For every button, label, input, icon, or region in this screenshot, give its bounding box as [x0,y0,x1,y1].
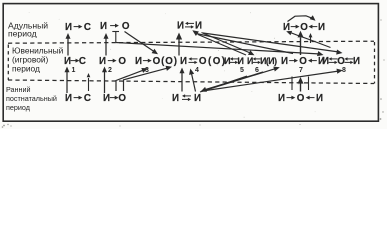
formula M2 И→О [99,56,126,67]
svg-text:1: 1 [72,67,76,74]
svg-text:постнатальный: постнатальный [6,94,57,103]
formula A4 И→О←И top [283,22,325,33]
line into B3 from M6 [201,72,264,92]
svg-text:2: 2 [108,67,112,74]
svg-text:Ранний: Ранний [6,85,31,94]
arrow B2 up to M2 [102,67,107,94]
dashed band bottom line [8,80,374,84]
svg-text:О: О [199,56,207,67]
svg-text:И: И [316,93,323,104]
svg-text:И: И [65,22,72,33]
arrow short below A4 ←И [309,33,313,43]
long line below A2 to M8 И [116,43,324,57]
svg-text:И: И [103,93,110,104]
svg-text:период: период [6,103,31,112]
svg-text:период: период [12,64,40,74]
svg-text:И: И [353,56,360,67]
svg-text:период: период [8,28,37,38]
svg-text:И: И [224,56,231,66]
dashed band top line [8,41,374,43]
svg-text:И: И [278,93,285,104]
svg-text:О: О [299,56,307,67]
line A3 down to M6 [202,33,255,56]
arrow M7 up to A4 O [298,31,304,55]
svg-text:6: 6 [255,67,259,74]
svg-text:О: О [297,93,305,104]
svg-text:И: И [177,21,184,32]
bent arrow B2 О to M3 end [124,66,173,91]
svg-text:О: О [165,56,173,67]
arrow B4 up to M7 [298,77,304,92]
svg-text:С: С [84,93,91,104]
svg-text:5: 5 [240,67,244,74]
outer frame [3,4,378,122]
line A3 down to M8 О [203,33,343,55]
svg-text:И: И [180,56,187,67]
arrow B3 up to M4 И [180,68,185,92]
arrow B1 С up tick [87,73,91,91]
svg-text:О: О [122,21,130,32]
formula A3 И⇆И top [177,21,202,32]
svg-text:И: И [195,21,202,32]
arc over A4 from И to И [288,15,316,21]
svg-text:С: С [79,56,86,67]
svg-text:7: 7 [299,67,303,74]
svg-text:О: О [118,56,126,67]
formula M8 И⇆О⇆И [322,56,360,67]
line from M7 up to A3 [196,34,293,54]
formula M4 И⇆О(О) [180,56,225,67]
svg-text:И: И [99,56,106,67]
svg-text:): ) [174,56,177,67]
arrow B3 to M7 [201,67,280,92]
arrow B3 up to M4 ⇆ [189,69,195,92]
svg-text:И: И [281,56,288,67]
svg-text:4: 4 [195,67,199,74]
tick stem below A2 [115,32,117,43]
formula B3 И⇆И bottom [172,93,201,104]
svg-text:И: И [135,56,142,67]
arc into A4 И from lower right [286,31,330,48]
svg-text:И: И [64,56,71,67]
arrow B3 to M8 long [203,69,343,91]
svg-text:И: И [237,56,244,66]
formula M3 И→О(О) [135,56,177,67]
arrow B1 up to M1 [65,67,70,94]
formula M1 И→С [64,56,86,67]
tick above B4 left [291,77,293,91]
svg-text:И: И [318,22,325,33]
svg-text:О: О [213,56,221,67]
svg-text:О: О [337,56,345,67]
arrow M2 up to A2 [104,33,109,56]
formula A1 И→С top [65,22,91,33]
formula B1 И→С bottom [65,93,91,104]
svg-text:): ) [274,56,277,66]
arrow M4 up to A3 [176,33,182,56]
line B3 to M5 area [200,76,247,92]
formula A2 И→О top [100,21,130,32]
scan noise speckles [2,12,385,127]
svg-text:И: И [172,93,179,104]
bent arrow B2 to M3 [116,68,148,91]
svg-text:О: О [153,56,161,67]
svg-text:О: О [118,93,126,104]
formula M7 И→О←И [281,56,325,67]
svg-text:И: И [100,21,107,32]
formula M5 И⇆И [224,56,244,66]
dashed band right edge [374,42,376,84]
arrowhead into A3 [192,30,199,36]
tick above B4 right [308,77,310,91]
arrow A2 О down to M3 [125,32,159,55]
svg-text:И: И [194,93,201,104]
line from M5 up to A3 [198,35,246,56]
formula M6 И⇆И(И) [247,56,277,66]
svg-text:С: С [84,22,91,33]
formula B4 И→О←И bottom [278,93,323,104]
arrow M1 up to A1 [66,33,71,56]
dashed band left edge [7,45,9,81]
svg-text:И: И [247,56,253,66]
svg-text:И: И [322,56,329,67]
formula B2 И→О bottom [103,93,126,104]
svg-text:О: О [300,22,308,33]
tick below A2 arrow [112,31,119,33]
svg-text:И: И [65,93,72,104]
